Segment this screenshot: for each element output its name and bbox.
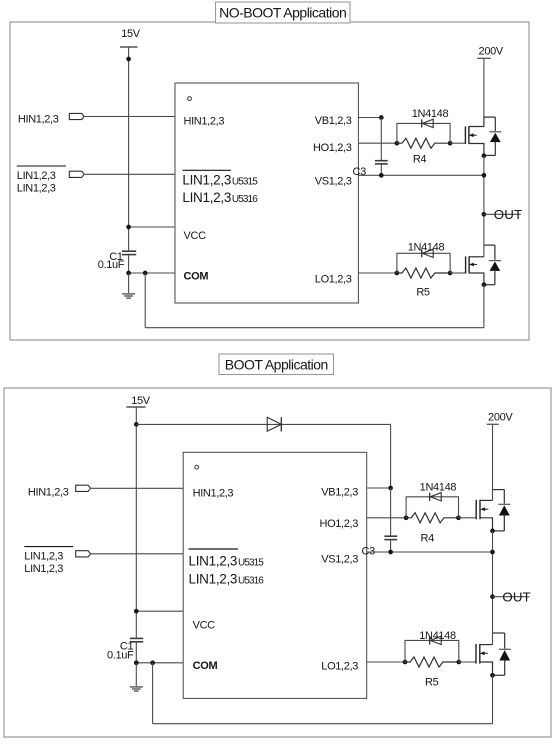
junction dot upper source [482, 153, 487, 158]
supply 200V (boot) [487, 411, 514, 424]
svg-text:LIN1,2,3: LIN1,2,3 [24, 563, 63, 575]
junction dot R4 left [395, 141, 400, 146]
wire bootstrap down to VB [390, 424, 392, 488]
svg-text:VCC: VCC [193, 620, 216, 632]
title box BOOT Application [219, 354, 334, 375]
junction dot COM left [126, 271, 131, 276]
input port symbol LIN [69, 171, 84, 177]
pin 1 indicator circle [188, 97, 192, 101]
junction dot COM return [143, 271, 148, 276]
transistor Q lower (no-boot mosfet) [466, 245, 495, 285]
wire COM to IC [129, 272, 175, 274]
svg-text:LIN1,2,3: LIN1,2,3 [24, 550, 63, 562]
svg-text:R5: R5 [416, 287, 430, 299]
wire VB down to C3 [380, 118, 382, 161]
transistor Q lower (boot mosfet) [476, 633, 505, 675]
resistor R4 [397, 138, 450, 148]
supply 200V (no-boot) [477, 45, 504, 58]
svg-text:LIN1,2,3: LIN1,2,3 [189, 554, 238, 569]
svg-text:C3: C3 [362, 545, 376, 557]
wire C1 bottom to COM [128, 255, 130, 273]
svg-text:COM: COM [193, 660, 218, 672]
svg-text:HIN1,2,3: HIN1,2,3 [193, 487, 234, 499]
junction dot COM return (boot) [150, 660, 155, 665]
wire R4 to gate (boot) [459, 517, 477, 519]
wire VS from IC to output node (boot) [367, 551, 493, 553]
wire 15V vertical to VCC/C1 [128, 47, 130, 250]
wire phase leg vertical [483, 156, 485, 257]
junction dot lower source (boot) [490, 673, 495, 678]
svg-text:HO1,2,3: HO1,2,3 [319, 518, 358, 530]
svg-text:1N4148: 1N4148 [412, 108, 449, 120]
wire LO from IC (boot) [367, 661, 405, 663]
svg-text:HIN1,2,3: HIN1,2,3 [28, 486, 69, 498]
svg-text:U5316: U5316 [238, 576, 264, 587]
capacitor C3 (boot) [384, 536, 397, 539]
wire VCC from 15V rail to IC [129, 226, 175, 228]
pin label /LIN1,2,3 overline (boot) [189, 548, 238, 550]
body diode upper (no-boot) [484, 117, 501, 155]
input port symbol HIN [69, 113, 84, 119]
junction dot lower source [482, 282, 487, 287]
svg-text:LO1,2,3: LO1,2,3 [315, 273, 352, 285]
junction dot VB (boot) [388, 486, 393, 491]
svg-text:LO1,2,3: LO1,2,3 [321, 660, 358, 672]
diode 1N4148 (upper boot) [430, 493, 442, 501]
wire LIN to IC (boot) [91, 553, 184, 555]
wire COM to IC (boot) [136, 662, 183, 664]
junction dot R5 right (boot) [456, 660, 461, 665]
svg-text:LIN1,2,3: LIN1,2,3 [182, 190, 231, 205]
BOOT section frame [4, 388, 551, 737]
junction dot R5 left (boot) [403, 660, 408, 665]
wire COM return drop [144, 273, 146, 328]
body diode lower (no-boot) [484, 245, 501, 285]
wire HIN to IC [84, 116, 175, 118]
diode 1N4148 (lower boot) [430, 636, 442, 644]
svg-text:OUT: OUT [494, 207, 522, 222]
svg-text:HO1,2,3: HO1,2,3 [313, 142, 352, 154]
wire COM to ground [128, 273, 130, 293]
wire VS from IC to output node [358, 174, 484, 176]
svg-text:VS1,2,3: VS1,2,3 [315, 175, 352, 187]
wire HO from IC (boot) [367, 517, 406, 519]
svg-text:HIN1,2,3: HIN1,2,3 [18, 113, 59, 125]
transistor Q upper (boot mosfet) [476, 490, 504, 531]
junction dot R5 left [395, 271, 400, 276]
svg-text:C3: C3 [353, 166, 367, 178]
wire VB from IC (boot) [367, 487, 391, 489]
svg-text:OUT: OUT [502, 589, 530, 604]
pin label /LIN1,2,3 overline [182, 169, 231, 171]
resistor R5 [397, 268, 450, 278]
junction dot on 15V wire [126, 57, 131, 62]
wire bottom return rail (boot) [153, 723, 493, 725]
junction dot VS-C3 [379, 173, 384, 178]
op IC U5315/U5316 box (boot) [183, 452, 367, 698]
wire R5 bypass loop [397, 253, 450, 273]
svg-text:0.1uF: 0.1uF [107, 649, 134, 661]
node OUT (boot) [490, 589, 531, 604]
pin 1 indicator circle (boot) [195, 465, 199, 469]
svg-text:BOOT Application: BOOT Application [225, 357, 328, 373]
svg-text:VB1,2,3: VB1,2,3 [315, 115, 352, 127]
junction dot R5 right [448, 271, 453, 276]
junction dot VS tap [482, 173, 487, 178]
wire HO from IC [358, 142, 397, 144]
junction dot upper source (boot) [490, 529, 495, 534]
svg-text:HIN1,2,3: HIN1,2,3 [184, 115, 225, 127]
wire lower source to return rail [483, 285, 485, 328]
value label C1 0.1uF (boot) [107, 641, 134, 662]
junction dot COM left (boot) [134, 660, 139, 665]
wire COM to ground (boot) [135, 663, 137, 687]
node OUT (no-boot) [482, 207, 523, 222]
ground symbol (boot) [130, 687, 143, 691]
svg-text:VB1,2,3: VB1,2,3 [321, 487, 358, 499]
wire 200V drop to drain [483, 58, 485, 117]
wire bottom return rail [145, 327, 484, 329]
svg-text:1N4148: 1N4148 [419, 630, 456, 642]
diode 1N4148 (upper no-boot) [422, 119, 434, 127]
wire R4 bypass loop [397, 123, 450, 143]
svg-text:LIN1,2,3: LIN1,2,3 [17, 183, 56, 195]
op IC U5315/U5316 box (no-boot) [175, 83, 358, 303]
wire phase leg vertical (boot) [492, 531, 494, 645]
wire bootstrap horizontal [136, 423, 390, 425]
wire LIN to IC [84, 173, 175, 175]
svg-text:15V: 15V [131, 395, 151, 407]
svg-text:LIN1,2,3: LIN1,2,3 [17, 170, 56, 182]
wire R5 bypass loop (boot) [405, 640, 459, 662]
wire lower source to return rail (boot) [492, 675, 494, 723]
wire C1 bottom to COM (boot) [135, 643, 137, 663]
junction dot VCC (boot) [134, 609, 139, 614]
junction dot R4 right (boot) [456, 515, 461, 520]
svg-text:COM: COM [184, 270, 209, 282]
wire C3 bottom to VS [380, 165, 382, 176]
wire R5 to gate (boot) [459, 661, 476, 663]
svg-text:200V: 200V [488, 411, 513, 423]
wire R4 to gate [450, 142, 466, 144]
svg-text:LIN1,2,3: LIN1,2,3 [189, 572, 238, 587]
title box NO-BOOT Application [216, 2, 351, 23]
wire VCC from 15V rail to IC (boot) [136, 610, 183, 612]
junction dot VS-C3 (boot) [388, 550, 393, 555]
svg-text:U5315: U5315 [232, 176, 258, 187]
value label C1 0.1uF [98, 251, 125, 271]
svg-text:NO-BOOT Application: NO-BOOT Application [219, 4, 346, 20]
wire VB down to C3 (boot) [390, 488, 392, 536]
wire R5 to gate [450, 272, 466, 274]
svg-text:R5: R5 [425, 676, 439, 688]
svg-text:200V: 200V [479, 45, 504, 57]
svg-text:R4: R4 [421, 532, 435, 544]
svg-text:U5315: U5315 [238, 558, 264, 569]
capacitor C1 (boot) [130, 638, 143, 641]
wire 200V drop to drain (boot) [492, 424, 494, 500]
input port symbol HIN (boot) [76, 485, 91, 491]
svg-text:LIN1,2,3: LIN1,2,3 [182, 172, 231, 187]
junction dot R4 left (boot) [404, 515, 409, 520]
node /LIN1,2,3 label with overline (no-boot) [17, 166, 66, 195]
wire 15V vertical to VCC/C1 (boot) [135, 407, 137, 638]
junction dot VB [379, 115, 384, 120]
supply 15V (boot) [126, 395, 150, 407]
capacitor C1 (no-boot) [122, 251, 136, 254]
ground symbol (no-boot) [122, 294, 135, 298]
wire C3 bottom to VS (boot) [390, 540, 392, 552]
diode 1N4148 (lower no-boot) [422, 249, 434, 257]
resistor R5 (boot) [405, 657, 459, 667]
junction dot R4 right [448, 141, 453, 146]
capacitor C3 (no-boot) [375, 161, 388, 164]
junction dot bootstrap tap [134, 422, 139, 427]
body diode upper (boot) [493, 490, 511, 531]
wire R4 bypass loop (boot) [406, 497, 458, 518]
input port symbol LIN (boot) [76, 551, 91, 557]
svg-text:R4: R4 [413, 154, 427, 166]
resistor R4 (boot) [406, 513, 458, 523]
wire VB from IC [358, 117, 381, 119]
svg-text:1N4148: 1N4148 [408, 242, 445, 254]
wire LO from IC [358, 272, 397, 274]
svg-text:U5316: U5316 [232, 194, 258, 205]
node /LIN1,2,3 label with overline (boot) [24, 547, 73, 575]
svg-text:15V: 15V [121, 28, 141, 40]
svg-text:1N4148: 1N4148 [420, 481, 457, 493]
NO-BOOT section frame [10, 22, 529, 340]
junction dot VS tap (boot) [490, 550, 495, 555]
wire HIN to IC (boot) [91, 487, 184, 489]
junction dot VCC [126, 225, 131, 230]
body diode lower (boot) [493, 633, 511, 675]
diode bootstrap (boot) [267, 417, 281, 431]
transistor Q upper (no-boot mosfet) [465, 117, 495, 156]
wire COM return drop (boot) [152, 663, 154, 724]
svg-text:VS1,2,3: VS1,2,3 [321, 553, 358, 565]
svg-text:0.1uF: 0.1uF [98, 259, 125, 271]
supply 15V (no-boot) [120, 28, 141, 47]
svg-text:VCC: VCC [184, 230, 207, 242]
